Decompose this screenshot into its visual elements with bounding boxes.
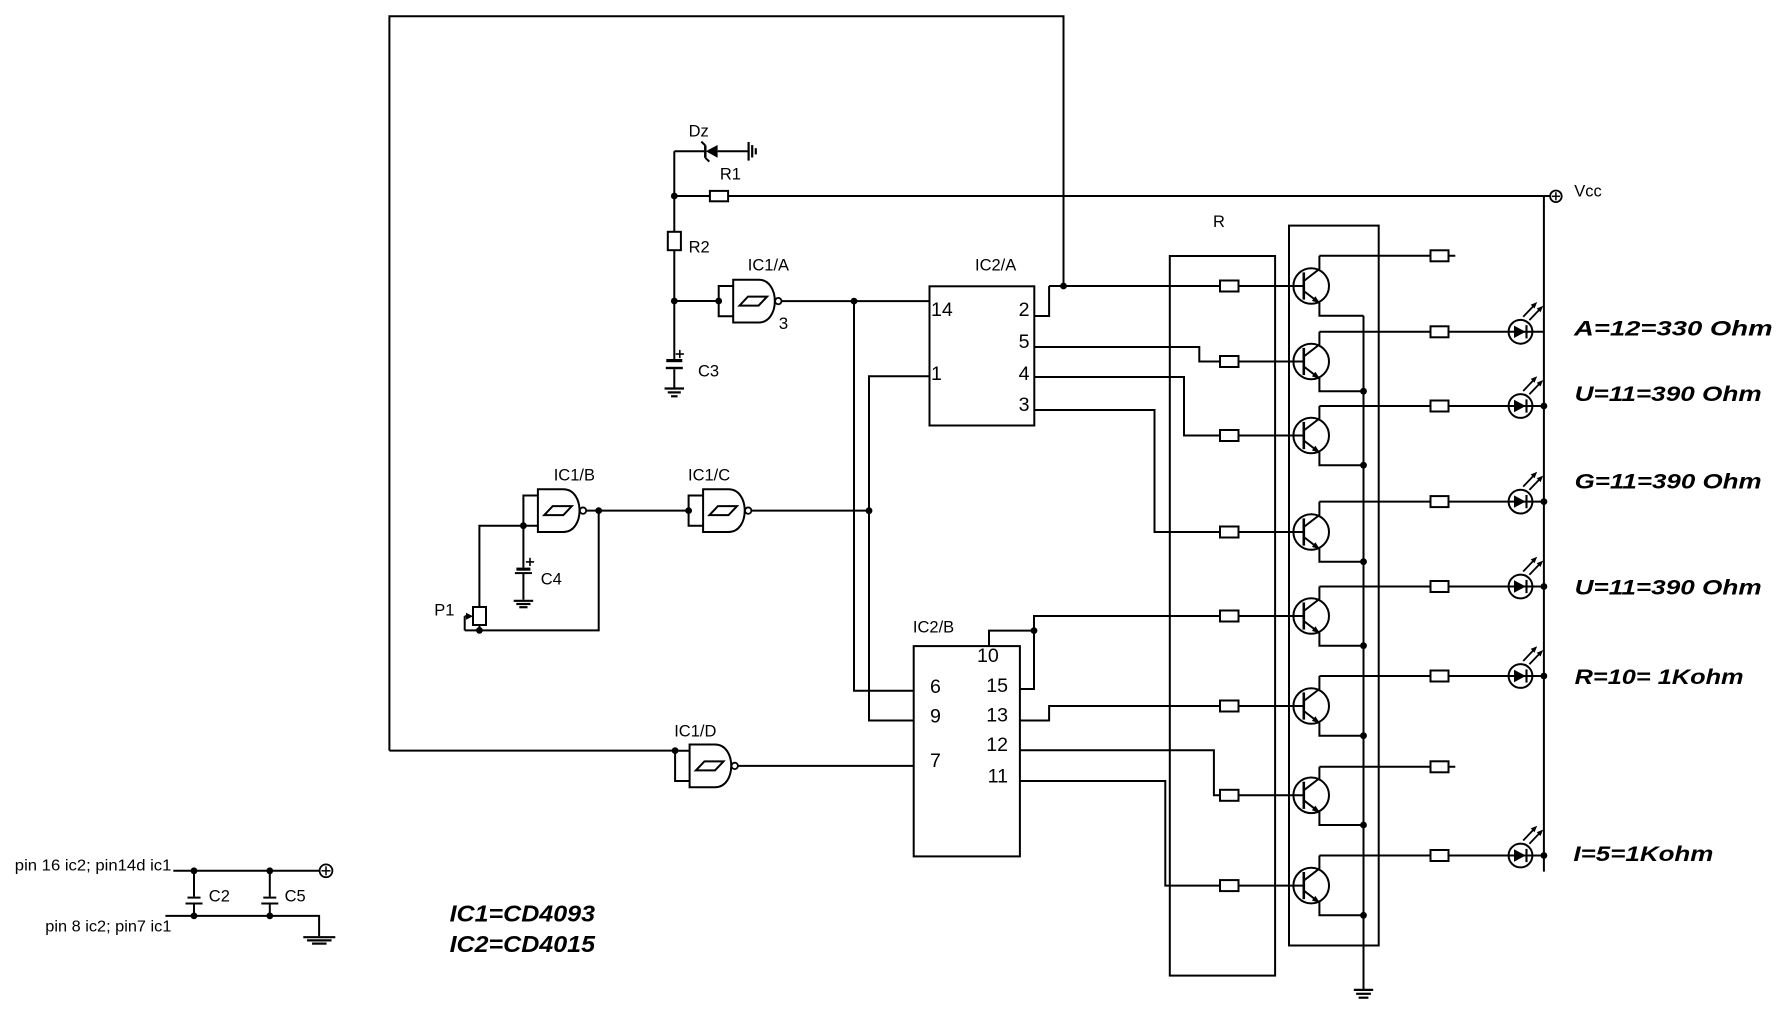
svg-text:IC1=CD4093: IC1=CD4093 (450, 900, 596, 926)
P1 wiper arrowhead (466, 613, 473, 620)
transistor Q1 (1304, 256, 1320, 281)
transistor Q5 (1304, 587, 1320, 612)
wire R1 run to Vcc rail (674, 195, 1544, 197)
LED A (1509, 320, 1533, 344)
svg-text:IC2/A: IC2/A (975, 257, 1016, 275)
svg-text:C4: C4 (541, 571, 562, 589)
wire IC2/B pin 13 to R row6 (1020, 706, 1304, 721)
capacitor C4 plus sign (526, 561, 534, 563)
svg-text:R2: R2 (689, 239, 710, 257)
svg-text:pin 16 ic2; pin14d ic1: pin 16 ic2; pin14d ic1 (15, 857, 172, 874)
resistor R2 (668, 232, 681, 250)
svg-text:IC1/A: IC1/A (748, 257, 789, 275)
node IC1/A input (715, 298, 722, 305)
node R1/R2/Dz (671, 193, 678, 200)
node supply top C2 (191, 867, 198, 874)
node loop / row1 (1060, 283, 1067, 290)
wire supply top (pin16/pin14) (173, 870, 319, 872)
svg-text:15: 15 (986, 675, 1008, 697)
base resistor row2 (R array) (1220, 356, 1239, 367)
wire zener to ground (718, 150, 748, 152)
svg-text:G=11=390 Ohm: G=11=390 Ohm (1575, 471, 1762, 494)
svg-text:U=11=390 Ohm: U=11=390 Ohm (1575, 577, 1762, 600)
wire IC2/A pin 2 (1034, 286, 1049, 316)
gate IC1/D (schmitt NAND) (675, 751, 690, 781)
svg-text:IC1/B: IC1/B (554, 466, 595, 484)
wire IC1/A input (674, 300, 718, 302)
wire C2 bottom stub (193, 905, 195, 916)
gate IC1/C (schmitt NAND) (689, 496, 704, 526)
wire IC2/B pin 12 to R row7 (1020, 750, 1304, 795)
collector resistor row2 (1431, 326, 1449, 337)
ground (C4) (514, 600, 534, 602)
node supply bottom C2 (191, 913, 198, 920)
base resistor row8 (R array) (1220, 880, 1239, 891)
base resistor row6 (R array) (1220, 701, 1239, 712)
svg-text:11: 11 (988, 766, 1008, 788)
node IC1/B output branch (595, 507, 602, 514)
wire IC1/D input (389, 750, 675, 752)
svg-text:IC2=CD4015: IC2=CD4015 (450, 931, 597, 957)
wire row7 collector output stub (1319, 766, 1455, 768)
LED U2 (1509, 575, 1533, 599)
wire IC2/A pin 5 to R row2 (1034, 347, 1304, 362)
svg-text:C3: C3 (698, 363, 719, 381)
IC U2 box IC2/B (914, 646, 1020, 856)
collector resistor row5 (1431, 581, 1449, 592)
transistor Q3 (1304, 406, 1320, 431)
base resistor row7 (R array) (1220, 790, 1239, 801)
wire IC2/A pin 3 to R row4 (1034, 410, 1304, 532)
transistor Q7 (1304, 767, 1320, 791)
wire row6 collector output (1319, 675, 1544, 677)
wire C5 top stub (269, 871, 271, 897)
svg-text:Vcc: Vcc (1574, 182, 1602, 200)
wire row1 base (net Q) (1049, 285, 1304, 287)
transistor array box (1289, 226, 1379, 946)
svg-text:14: 14 (931, 299, 953, 321)
wire row3 collector output (1319, 405, 1544, 407)
svg-text:10: 10 (977, 645, 999, 667)
wire IC2/B pin 10 (989, 631, 1034, 647)
node IC1/C output branch (866, 507, 873, 514)
svg-text:12: 12 (986, 734, 1008, 756)
wire IC1/C output (751, 510, 869, 512)
LED I (1509, 844, 1533, 868)
wire emitter ground bus (1363, 316, 1365, 990)
svg-text:3: 3 (1019, 394, 1030, 416)
collector resistor row6 (1431, 671, 1449, 682)
svg-text:R: R (1213, 213, 1225, 231)
LED U (1509, 394, 1533, 418)
wire IC1/A out to IC2/B pin 6 (854, 301, 914, 691)
node Vcc rail row4 (1541, 498, 1548, 505)
wire IC1/B out to IC1/C in (586, 510, 688, 512)
wire row1 collector output stub (1319, 255, 1455, 257)
capacitor C3 plus sign (676, 353, 684, 355)
svg-text:U=11=390 Ohm: U=11=390 Ohm (1575, 383, 1762, 406)
node R2/C3/IC1A input (671, 298, 678, 305)
svg-text:R=10= 1Kohm: R=10= 1Kohm (1575, 666, 1744, 689)
svg-text:6: 6 (930, 676, 941, 698)
svg-text:A=12=330 Ohm: A=12=330 Ohm (1573, 318, 1773, 341)
zener Dz cathode top hook (701, 142, 705, 146)
potentiometer P1 (473, 607, 486, 625)
transistor Q2 (1304, 332, 1320, 357)
collector resistor row4 (1431, 496, 1449, 507)
ground (emitter bus) (1354, 989, 1373, 991)
svg-text:pin 8 ic2; pin7 ic1: pin 8 ic2; pin7 ic1 (45, 919, 171, 936)
LED G (1509, 490, 1533, 514)
node P1 bottom (476, 627, 483, 634)
svg-text:5: 5 (1019, 331, 1030, 353)
Vcc terminal symbol (1544, 195, 1550, 197)
collector resistor row1 (1431, 250, 1449, 261)
ground (zener, rotated) (747, 142, 749, 161)
node Vcc rail row3 (1541, 403, 1548, 410)
svg-text:2: 2 (1019, 299, 1030, 321)
wire IC2/B pin 15 to R row5 (1020, 616, 1304, 689)
node supply bottom C5 (266, 913, 273, 920)
node supply top C5 (266, 867, 273, 874)
wire supply bottom (pin8/pin7) (165, 916, 319, 936)
IC U1 box IC2/A (930, 286, 1035, 425)
svg-text:7: 7 (930, 750, 941, 772)
resistor network box R (1170, 256, 1275, 976)
capacitor C3 (666, 359, 682, 362)
base resistor row5 (R array) (1220, 611, 1239, 622)
supply terminal symbol (bottom left) (320, 864, 333, 877)
wire feedback loop (IC2/A pin2 to IC1/D input) (389, 16, 1063, 750)
zener Dz cathode bottom hook (705, 158, 709, 162)
node emitter bus row3 (1360, 462, 1367, 469)
base resistor row4 (R array) (1220, 527, 1239, 538)
node emitter bus row2 (1360, 388, 1367, 395)
wire C2 top stub (193, 871, 195, 897)
svg-text:IC1/D: IC1/D (674, 722, 716, 740)
node pin10/pin15 (1031, 627, 1038, 634)
wire row2 collector output (1319, 331, 1544, 333)
wire IC2/A pin 1 / IC1/C out / IC2/B pin 9 net (869, 376, 930, 720)
wire zener anode side (674, 150, 704, 152)
collector resistor row7 (1431, 761, 1449, 772)
node IC1/C input (685, 507, 692, 514)
wire C4 to ground (522, 574, 524, 600)
transistor Q8 (1304, 856, 1320, 881)
collector resistor row3 (1431, 401, 1449, 412)
zener diode Dz cathode bar (704, 145, 707, 157)
resistor R1 (710, 191, 728, 201)
wire P1 wiper tail (464, 616, 466, 630)
wire C5 bottom stub (269, 905, 271, 916)
node Vcc rail row6 (1541, 673, 1548, 680)
wire P1 wiper arrow (465, 615, 468, 617)
svg-text:C2: C2 (209, 888, 230, 906)
zener Dz triangle (706, 145, 718, 158)
op-amp gate IC1/A (schmitt NAND) (719, 286, 734, 316)
wire C4 branch (522, 526, 524, 568)
svg-text:9: 9 (930, 706, 941, 728)
ground (supply) (303, 936, 335, 938)
svg-text:I=5=1Kohm: I=5=1Kohm (1573, 843, 1713, 866)
node Vcc rail row5 (1541, 583, 1548, 590)
LED R (1509, 664, 1533, 688)
node emitter bus row6 (1360, 732, 1367, 739)
capacitor C4 (516, 568, 530, 571)
svg-text:R1: R1 (720, 165, 741, 183)
node IC1/D input (672, 747, 679, 754)
svg-text:1: 1 (931, 363, 942, 385)
node emitter bus row8 (1360, 912, 1367, 919)
svg-text:P1: P1 (434, 601, 454, 619)
svg-text:Dz: Dz (689, 122, 709, 140)
svg-text:IC2/B: IC2/B (913, 619, 954, 637)
svg-text:IC1/C: IC1/C (688, 466, 730, 484)
wire left column Dz/R1/R2/C3 (673, 151, 675, 359)
svg-text:3: 3 (779, 314, 788, 333)
wire C3 to ground (673, 369, 675, 388)
ground (C3) (665, 387, 685, 389)
node IC1/A output branch (851, 298, 858, 305)
capacitor C2 (188, 897, 201, 899)
node IC1/B input / C4 (520, 522, 527, 529)
node emitter bus row5 (1360, 642, 1367, 649)
wire IC1/A output to IC2/A pin 14 (782, 300, 930, 302)
wire IC1/B input to P1 (479, 526, 523, 607)
collector resistor row8 (1431, 850, 1449, 861)
base resistor row1 (R array) (1220, 281, 1239, 292)
svg-text:4: 4 (1019, 363, 1030, 385)
transistor Q6 (1304, 676, 1320, 701)
wire RC feedback to IC1/B output (465, 511, 599, 631)
node Vcc rail row8 (1541, 852, 1548, 859)
wire row8 collector output (1319, 855, 1544, 857)
gate IC1/B (schmitt NAND) (523, 496, 538, 526)
transistor Q4 (1304, 502, 1320, 527)
wire Vcc rail (LED anode bus) (1543, 196, 1545, 872)
base resistor row3 (R array) (1220, 430, 1239, 441)
svg-text:13: 13 (986, 704, 1008, 726)
wire P1 bottom terminal (479, 625, 481, 630)
wire IC1/D output to IC2/B pin 7 (738, 765, 914, 767)
svg-text:C5: C5 (285, 888, 306, 906)
wire IC2/A pin 4 to R row3 (1034, 377, 1304, 436)
wire IC2/B pin 11 to R row8 (1020, 781, 1304, 886)
wire row5 collector output (1319, 586, 1544, 588)
node emitter bus row7 (1360, 822, 1367, 829)
wire row4 collector output (1319, 501, 1544, 503)
node emitter bus row4 (1360, 558, 1367, 565)
capacitor C5 (263, 897, 276, 899)
